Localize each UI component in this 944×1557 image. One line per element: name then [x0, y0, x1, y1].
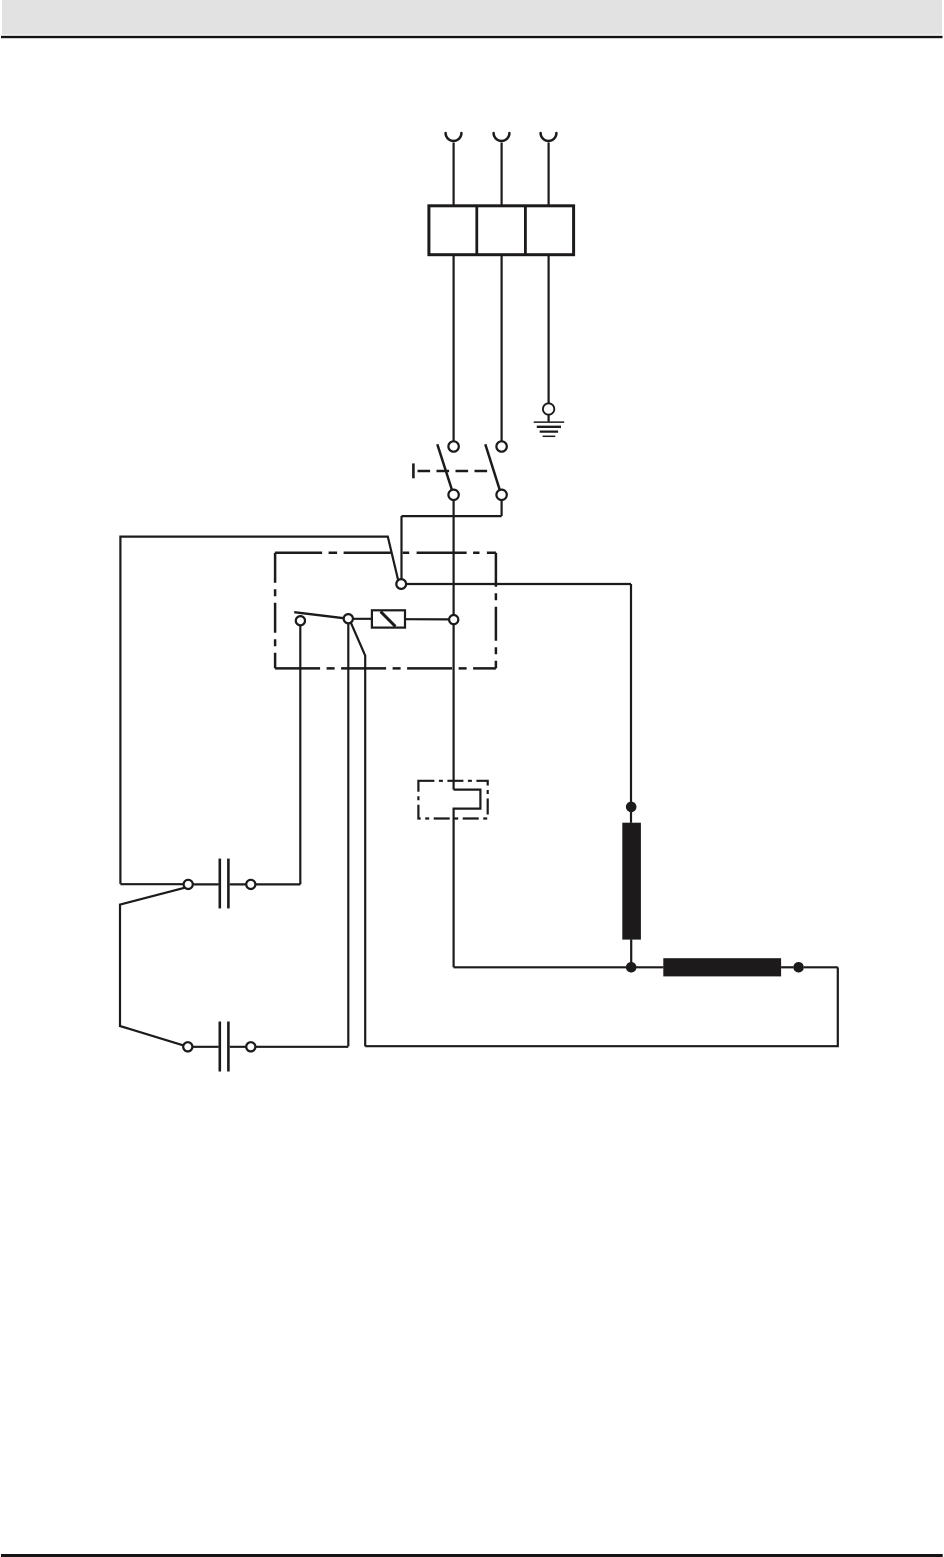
switch linkage dashed line: [418, 470, 493, 473]
ground stem: [547, 415, 549, 422]
ground terminal circle: [543, 403, 554, 414]
junction dot above R1: [626, 802, 637, 813]
supply terminal L1: [446, 133, 462, 141]
changeover contact pivot circle: [344, 614, 353, 623]
ground bar 3: [540, 430, 558, 432]
wire R1 bottom to junction: [630, 940, 632, 968]
junction dot right of R2: [793, 962, 804, 973]
wire pivot down to C2: [347, 623, 349, 1046]
capacitor C1 left terminal circle: [184, 880, 193, 889]
wire R2 to dot: [781, 966, 793, 968]
fuse block F1: [429, 206, 574, 255]
capacitor C2 left lead: [192, 1046, 218, 1048]
coil right pin circle: [449, 615, 458, 624]
wire C1 left down chain: [120, 888, 185, 1046]
capacitor C2 right terminal circle: [246, 1042, 255, 1051]
capacitor C1 right lead: [230, 883, 246, 885]
thermal cutout box (dash-dot): [418, 781, 487, 819]
wire pole1 bottom down through box: [453, 500, 455, 615]
footer rule: [1, 1554, 943, 1557]
switch linkage end tick: [412, 463, 415, 478]
page header bar: [2, 0, 942, 35]
capacitor C2 plates: [219, 1022, 222, 1072]
wire pivot to coil: [353, 618, 372, 620]
changeover lever: [294, 612, 344, 618]
junction dot below R1: [626, 962, 637, 973]
wire fuse to switch pole 1: [453, 255, 455, 442]
wire junction to R2: [631, 966, 663, 968]
wire down to node A: [400, 516, 402, 579]
capacitor C1 right terminal circle: [246, 880, 255, 889]
wire left to capacitor C1: [120, 883, 183, 885]
wire L1 to fuse: [453, 143, 455, 206]
changeover contact left circle: [296, 616, 305, 625]
wire pole2 bottom down: [501, 500, 503, 516]
switch S1 pole 1 bottom contact: [448, 490, 458, 500]
heating element R2 (horizontal bar): [663, 958, 781, 976]
wire pivot diagonal branch: [351, 623, 365, 1047]
capacitor C2 right lead: [230, 1046, 246, 1048]
switch S1 pole 2 lever: [485, 444, 499, 490]
wire L2 to fuse: [501, 143, 503, 206]
wire coil to pin circle: [405, 618, 449, 620]
supply terminal L2: [494, 133, 510, 141]
capacitor C1 plates: [219, 859, 222, 909]
wire C1 right up to changeover: [255, 883, 300, 885]
wire horizontal to left of pole2: [402, 515, 502, 517]
capacitor C2 left terminal circle: [183, 1042, 192, 1051]
wire long left horizontal: [120, 537, 398, 884]
wire C2 right to riser: [255, 1046, 348, 1048]
capacitor C1 left lead: [193, 883, 219, 885]
header rule: [1, 36, 943, 38]
wire changeover left contact down to C1: [299, 625, 301, 884]
wire fuse to switch pole 2: [501, 255, 503, 442]
wire pin circle down to thermal cutout: [453, 624, 455, 789]
supply terminal L3: [541, 133, 557, 141]
heating element R1 (vertical bar): [622, 823, 641, 940]
switch S1 pole 1 lever: [437, 444, 452, 490]
ground bar 2: [537, 426, 561, 428]
wire fuse to ground: [547, 255, 549, 404]
thermal cutout jog wire: [454, 790, 481, 968]
wire cutout to junction: [454, 966, 632, 968]
wire bottom long horizontal: [365, 967, 838, 1046]
relay box K1 (dash-dot): [275, 553, 496, 669]
switch S1 pole 2 bottom contact: [496, 490, 506, 500]
node A circle: [396, 579, 406, 589]
wire node A to right: [406, 583, 631, 585]
switch S1 pole 1 top contact: [448, 441, 458, 451]
wire down to R1: [630, 584, 632, 823]
relay coil: [372, 610, 405, 627]
ground bar 1: [534, 421, 565, 423]
wire dot to right corner: [804, 966, 838, 968]
ground bar 4: [543, 435, 556, 437]
switch S1 pole 2 top contact: [496, 441, 506, 451]
wire L3 to fuse: [547, 143, 549, 206]
